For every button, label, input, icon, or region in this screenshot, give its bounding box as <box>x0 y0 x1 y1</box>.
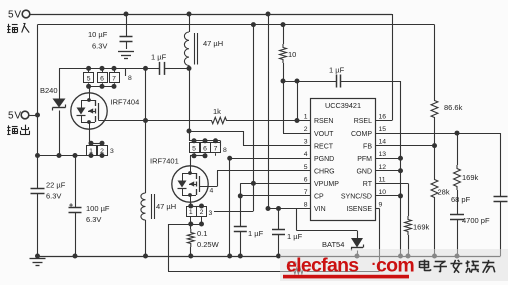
svg-text:1 µF: 1 µF <box>287 232 303 241</box>
svg-text:6: 6 <box>304 176 308 183</box>
svg-text:22 µF: 22 µF <box>46 181 66 190</box>
svg-text:4700 pF: 4700 pF <box>462 216 490 225</box>
svg-text:ISENSE: ISENSE <box>346 206 372 213</box>
svg-text:+: + <box>69 203 73 210</box>
svg-text:5: 5 <box>192 146 196 153</box>
svg-text:169k: 169k <box>413 223 430 232</box>
svg-text:100 µF: 100 µF <box>86 204 110 213</box>
svg-text:UCC39421: UCC39421 <box>325 101 361 110</box>
svg-text:6.3V: 6.3V <box>92 42 107 51</box>
svg-text:11: 11 <box>379 176 386 183</box>
svg-text:6.3V: 6.3V <box>46 192 61 201</box>
svg-text:RT: RT <box>363 181 373 188</box>
svg-text:B240: B240 <box>40 86 58 95</box>
svg-text:1 µF: 1 µF <box>248 229 264 238</box>
svg-text:13: 13 <box>379 151 387 158</box>
svg-text:7: 7 <box>214 146 218 153</box>
svg-text:7: 7 <box>112 76 116 83</box>
svg-text:0.25W: 0.25W <box>197 240 220 249</box>
svg-text:5: 5 <box>87 76 91 83</box>
svg-text:86.6k: 86.6k <box>444 103 463 112</box>
svg-text:14: 14 <box>379 139 387 146</box>
svg-text:1: 1 <box>304 114 308 121</box>
svg-text:2: 2 <box>200 209 204 216</box>
svg-text:4: 4 <box>210 188 214 195</box>
svg-text:IRF7404: IRF7404 <box>111 98 140 107</box>
svg-text:VOUT: VOUT <box>314 131 334 138</box>
svg-text:12: 12 <box>379 164 387 171</box>
svg-text:8: 8 <box>223 147 227 154</box>
svg-text:5V: 5V <box>8 10 22 21</box>
svg-text:SYNC/SD: SYNC/SD <box>341 194 372 201</box>
svg-text:COMP: COMP <box>351 131 372 138</box>
svg-text:28k: 28k <box>438 188 450 197</box>
svg-text:IRF7401: IRF7401 <box>150 157 179 166</box>
svg-text:47 µH: 47 µH <box>156 202 176 211</box>
svg-text:9: 9 <box>379 201 383 208</box>
svg-text:169k: 169k <box>462 173 479 182</box>
svg-text:FB: FB <box>363 143 372 150</box>
svg-text:0.1: 0.1 <box>197 229 207 238</box>
svg-text:com: com <box>376 255 414 277</box>
svg-text:RSEN: RSEN <box>314 118 333 125</box>
svg-text:VPUMP: VPUMP <box>314 181 339 188</box>
svg-text:GND: GND <box>356 168 372 175</box>
svg-text:6.3V: 6.3V <box>86 215 101 224</box>
svg-text:BAT54: BAT54 <box>322 240 344 249</box>
svg-text:10: 10 <box>288 50 296 59</box>
svg-text:VIN: VIN <box>314 206 326 213</box>
svg-text:8: 8 <box>304 201 308 208</box>
svg-text:47 µH: 47 µH <box>203 39 223 48</box>
svg-text:PGND: PGND <box>314 156 334 163</box>
svg-text:5: 5 <box>304 164 308 171</box>
svg-text:68 pF: 68 pF <box>451 195 471 204</box>
svg-text:7: 7 <box>304 189 308 196</box>
svg-text:6: 6 <box>203 146 207 153</box>
svg-text:10 µF: 10 µF <box>88 30 108 39</box>
svg-text:5V: 5V <box>8 111 22 122</box>
svg-text:1 µF: 1 µF <box>329 66 345 75</box>
svg-text:RSEL: RSEL <box>354 118 372 125</box>
svg-text:6: 6 <box>100 76 104 83</box>
svg-text:elecfans: elecfans <box>286 255 359 277</box>
svg-text:RECT: RECT <box>314 143 334 150</box>
svg-text:1k: 1k <box>213 107 221 116</box>
svg-text:2: 2 <box>304 126 308 133</box>
svg-text:15: 15 <box>379 126 387 133</box>
svg-text:3: 3 <box>304 139 308 146</box>
svg-text:3: 3 <box>110 148 114 155</box>
svg-text:CHRG: CHRG <box>314 168 335 175</box>
svg-text:1 µF: 1 µF <box>151 53 167 62</box>
svg-text:1: 1 <box>189 209 193 216</box>
svg-text:CP: CP <box>314 194 324 201</box>
svg-text:10: 10 <box>379 189 387 196</box>
svg-text:3: 3 <box>209 210 213 217</box>
svg-text:16: 16 <box>379 114 387 121</box>
svg-text:PFM: PFM <box>357 156 372 163</box>
svg-text:4: 4 <box>304 151 308 158</box>
svg-text:8: 8 <box>128 75 132 82</box>
